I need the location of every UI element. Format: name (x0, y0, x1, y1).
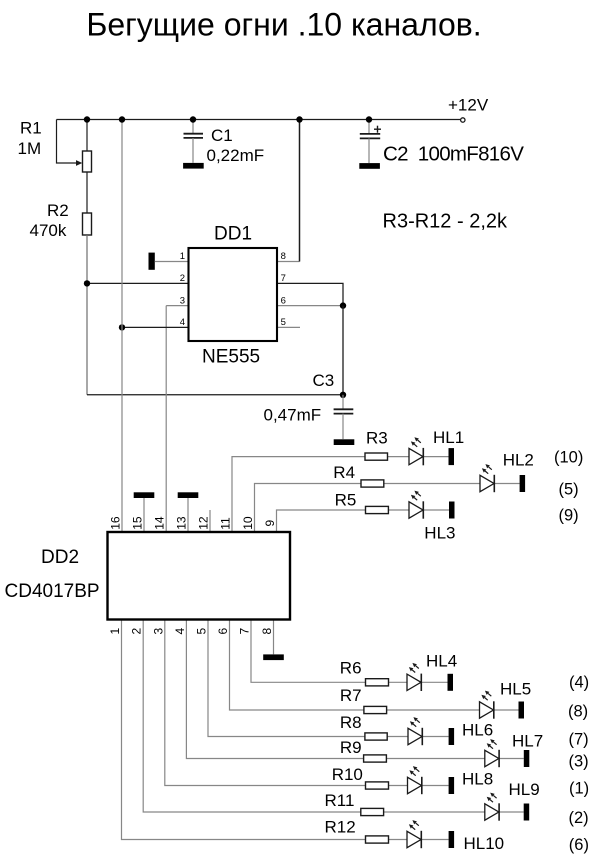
label + polarity C2 (374, 126, 381, 133)
wire (422, 736, 448, 738)
svg-text:HL8: HL8 (462, 770, 493, 789)
wire (423, 509, 449, 511)
svg-text:(1): (1) (569, 780, 589, 798)
svg-text:R5: R5 (335, 491, 357, 510)
svg-text:1: 1 (108, 628, 122, 635)
resistor R7 (364, 706, 387, 713)
svg-text:HL9: HL9 (509, 780, 540, 799)
R1 wiper arrow (76, 160, 82, 166)
wire DD2 pin7 to R6 (251, 620, 366, 683)
svg-text:9: 9 (263, 520, 277, 527)
LED HL8 (408, 766, 422, 794)
wire (422, 785, 449, 787)
ground C2 (359, 163, 380, 169)
terminal bar HL10 (449, 831, 455, 848)
svg-text:HL3: HL3 (424, 524, 455, 543)
terminal bar HL7 (524, 750, 530, 767)
svg-text:7: 7 (281, 273, 286, 284)
resistor R6 (366, 679, 389, 686)
wire (342, 395, 344, 409)
svg-text:5: 5 (195, 628, 209, 635)
svg-text:R2: R2 (47, 201, 69, 220)
wire (192, 120, 194, 134)
terminal bar HL1 (449, 448, 455, 465)
svg-text:2: 2 (180, 273, 185, 284)
wire (421, 681, 447, 683)
svg-text:(9): (9) (559, 507, 579, 525)
svg-text:(4): (4) (569, 674, 589, 692)
wire (368, 120, 370, 135)
svg-text:0,47mF: 0,47mF (264, 406, 322, 425)
svg-text:R4: R4 (333, 463, 355, 482)
svg-text:6: 6 (281, 295, 286, 306)
wire DD2 pin10 to R4 (255, 484, 362, 533)
wire (342, 414, 344, 440)
svg-text:(3): (3) (569, 753, 589, 771)
LED HL1 (409, 437, 423, 465)
LED HL10 (407, 820, 421, 848)
node pin4 junction (119, 324, 125, 330)
svg-text:11: 11 (219, 517, 233, 530)
wire pin 7 (277, 283, 343, 305)
wire to C3 node (87, 394, 343, 396)
svg-text:12: 12 (197, 516, 211, 530)
wire (384, 483, 480, 485)
wire DD2 pin9 to R5 (277, 510, 366, 532)
potentiometer R1 (83, 151, 92, 172)
svg-text:R3: R3 (366, 429, 388, 448)
svg-text:R3-R12 - 2,2k: R3-R12 - 2,2k (383, 211, 508, 233)
node rail (119, 116, 125, 122)
ground C3 (334, 439, 355, 445)
wire 555 pin3 to DD2 pin14 (165, 306, 167, 532)
svg-text:8: 8 (260, 628, 274, 635)
LED HL9 (485, 793, 499, 821)
svg-text:2: 2 (130, 628, 144, 635)
svg-text:R12: R12 (325, 818, 356, 837)
LED HL7 (485, 739, 499, 767)
wire pin 5 stub (277, 326, 300, 328)
wire (423, 456, 448, 458)
svg-text:HL4: HL4 (426, 652, 457, 671)
wire (368, 138, 370, 163)
svg-text:10: 10 (241, 516, 255, 530)
wire (86, 120, 88, 152)
wire pin 2 (87, 282, 189, 284)
svg-text:DD1: DD1 (214, 224, 252, 245)
resistor R8 (365, 733, 387, 740)
svg-text:13: 13 (175, 516, 189, 530)
svg-text:Бегущие огни .10 каналов.: Бегущие огни .10 каналов. (86, 7, 481, 43)
svg-text:5: 5 (281, 317, 286, 328)
node pin2 junction (84, 280, 90, 286)
svg-text:R9: R9 (340, 738, 362, 757)
wire DD2 pin5 to R8 (208, 620, 365, 737)
svg-text:1: 1 (180, 251, 185, 262)
wire (388, 509, 409, 511)
wire (387, 709, 480, 711)
svg-text:(8): (8) (568, 703, 588, 721)
LED HL6 (408, 717, 422, 745)
svg-text:15: 15 (131, 516, 145, 530)
wire pin 4 (122, 326, 189, 328)
wire (86, 172, 88, 213)
wire to C3 node (342, 306, 344, 395)
wire (384, 811, 485, 813)
wire (389, 681, 408, 683)
wire (421, 839, 448, 841)
wire (494, 483, 519, 485)
wire pin 15 stub (143, 498, 145, 532)
terminal bar HL6 (449, 728, 455, 745)
wire pin 8 (277, 261, 300, 263)
svg-text:8: 8 (281, 251, 286, 262)
node pin6/pin7 junction (340, 302, 346, 308)
terminal bar HL9 (524, 804, 530, 821)
wire (192, 138, 194, 163)
svg-text:HL2: HL2 (503, 451, 534, 470)
op-amp/timer DD1 NE555 body (189, 248, 278, 341)
terminal bar HL3 (449, 502, 455, 519)
svg-text:14: 14 (153, 516, 167, 530)
svg-text:4: 4 (180, 317, 185, 328)
wire (387, 736, 408, 738)
resistor R3 (365, 453, 388, 460)
wire pin 8 to rail (299, 120, 301, 262)
wire (389, 785, 408, 787)
svg-text:HL6: HL6 (462, 721, 493, 740)
wire (386, 758, 484, 760)
svg-text:HL5: HL5 (500, 680, 531, 699)
wire DD2 pin2 to R11 (143, 620, 361, 813)
node rail (84, 116, 90, 122)
wire pin 1 (155, 261, 189, 263)
svg-text:CD4017BP: CD4017BP (5, 581, 100, 602)
svg-text:6: 6 (216, 628, 230, 635)
counter DD2 CD4017BP body (108, 532, 291, 620)
terminal bar HL4 (448, 674, 454, 691)
ground DD2 pin 8 (263, 654, 284, 660)
resistor R11 (361, 808, 384, 815)
capacitor C2 (electrolytic) (360, 134, 380, 139)
wire +12V rail (57, 119, 461, 121)
LED HL3 (409, 491, 423, 519)
svg-text:R1: R1 (20, 119, 42, 138)
wire pin 8 stub (273, 620, 275, 655)
wire left rail down (86, 235, 88, 395)
svg-text:R6: R6 (340, 659, 362, 678)
svg-text:R10: R10 (332, 765, 363, 784)
wire pin 12 stub (209, 510, 211, 532)
wire pin 6 (277, 305, 343, 307)
svg-text:(7): (7) (569, 731, 589, 749)
wire DD2 pin1 to R12 (122, 620, 366, 840)
svg-text:7: 7 (238, 628, 252, 635)
svg-text:16: 16 (109, 516, 123, 530)
wire DD2 pin4 to R9 (186, 620, 363, 759)
svg-text:(2): (2) (569, 809, 589, 827)
svg-text:(6): (6) (569, 836, 589, 854)
svg-text:R8: R8 (340, 713, 362, 732)
+12V terminal (461, 118, 465, 122)
LED HL4 (407, 663, 421, 691)
wire (388, 456, 410, 458)
wire (494, 709, 519, 711)
wire (499, 758, 524, 760)
node rail (190, 116, 196, 122)
svg-text:C2 100mF816V: C2 100mF816V (383, 142, 524, 165)
svg-text:470k: 470k (30, 221, 67, 240)
svg-text:R11: R11 (325, 791, 355, 810)
svg-text:C1: C1 (211, 126, 233, 145)
wire (499, 811, 524, 813)
svg-text:R7: R7 (340, 686, 362, 705)
svg-text:HL7: HL7 (512, 732, 543, 751)
capacitor C3 (334, 409, 354, 413)
svg-text:(10): (10) (554, 449, 583, 467)
resistor R2 (83, 213, 92, 235)
svg-text:HL10: HL10 (464, 834, 505, 853)
svg-text:NE555: NE555 (202, 347, 260, 368)
resistor R5 (366, 506, 389, 513)
wire DD2 pin3 to R10 (165, 620, 366, 786)
resistor R4 (361, 480, 384, 487)
svg-text:DD2: DD2 (41, 547, 79, 568)
LED HL5 (480, 691, 494, 719)
svg-text:1M: 1M (18, 139, 42, 158)
wire +12V to DD2 pin16 (121, 120, 123, 533)
svg-text:3: 3 (151, 628, 165, 635)
svg-text:0,22mF: 0,22mF (207, 146, 265, 165)
terminal bar HL8 (449, 777, 455, 794)
svg-text:4: 4 (173, 628, 187, 635)
wire pin 13 stub (187, 498, 189, 532)
terminal bar HL5 (519, 702, 525, 719)
svg-text:HL1: HL1 (433, 428, 464, 447)
svg-text:3: 3 (180, 295, 185, 306)
svg-text:+12V: +12V (448, 95, 489, 114)
resistor R10 (366, 782, 389, 789)
LED HL2 (480, 464, 494, 492)
ground DD2 pin 15 (134, 492, 155, 498)
terminal bar HL2 (520, 475, 526, 492)
resistor R9 (364, 755, 387, 762)
ground DD1 pin1 (149, 253, 155, 270)
node C3 (340, 392, 346, 398)
wire pin 3 (166, 305, 188, 307)
ground C1 (183, 163, 204, 169)
wire DD2 pin11 to R3 (232, 457, 365, 532)
node rail (296, 116, 302, 122)
node rail (366, 116, 372, 122)
wire R1 wiper (57, 120, 77, 164)
wire DD2 pin6 to R7 (230, 620, 364, 711)
wire (389, 839, 408, 841)
ground DD2 pin 13 (178, 492, 199, 498)
svg-text:C3: C3 (313, 371, 335, 390)
capacitor C1 (184, 134, 204, 138)
svg-text:(5): (5) (559, 481, 579, 499)
resistor R12 (366, 836, 389, 843)
